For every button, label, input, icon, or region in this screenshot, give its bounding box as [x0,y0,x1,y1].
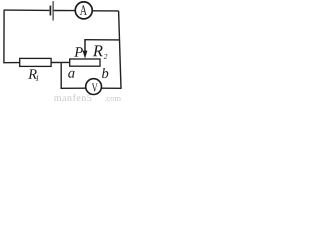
wiper arrowhead [83,51,88,59]
potentiometer R2 label R [93,45,103,56]
battery B1 positive plate (long thin) [52,1,54,20]
potentiometer R2 box [70,59,100,66]
wire a-node drop [60,62,62,89]
wire right vertical [119,11,121,88]
battery B1 negative plate (short thick) [49,6,51,16]
voltmeter V1 circle [86,79,102,95]
resistor R1 label R [28,69,37,78]
ammeter A1 circle [75,2,92,19]
resistor R1 box [20,58,51,66]
wire R1 to potentiometer [51,61,70,63]
wire top-left segment [4,9,49,11]
wire voltmeter to right rail [101,87,122,89]
terminal label a [68,71,74,78]
watermark .com [105,97,121,101]
wire bottom-left to R1 [4,62,20,64]
resistor R1 subscript 1 [36,75,39,80]
potentiometer R2 subscript 2 [104,54,108,59]
wiper wire horizontal to right rail [84,39,119,41]
wire battery to ammeter [54,10,75,12]
terminal label b [102,68,108,78]
voltmeter V1 label V [92,83,98,91]
wire drop to voltmeter [61,87,87,89]
wiper stem [84,40,86,52]
ammeter A1 label A [80,5,87,15]
wire left vertical [3,10,5,64]
watermark manfen5 [54,94,91,101]
wire ammeter to top-right corner [92,10,118,12]
label P wiper [74,47,83,56]
